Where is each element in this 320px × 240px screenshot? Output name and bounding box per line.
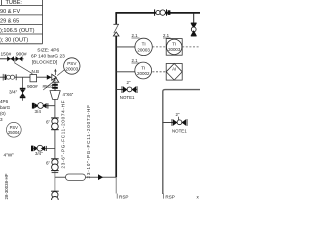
svg-text:TUBE:: TUBE: <box>6 0 23 6</box>
svg-text:#503: #503 <box>43 84 54 90</box>
svg-text:4”W”: 4”W” <box>4 153 15 159</box>
svg-text:4P6: 4P6 <box>0 99 9 104</box>
svg-text:PSV: PSV <box>67 61 77 66</box>
svg-text:23-10”-PG-FC11-20073-HF: 23-10”-PG-FC11-20073-HF <box>86 104 91 178</box>
svg-text:NOTE1: NOTE1 <box>172 129 187 134</box>
svg-text:20003: 20003 <box>168 47 181 52</box>
svg-text:(0): (0) <box>0 111 6 116</box>
svg-text:TI: TI <box>172 42 176 47</box>
svg-text:28-30038-HF: 28-30038-HF <box>4 173 9 199</box>
svg-text:900#: 900# <box>27 84 38 90</box>
svg-text:TI: TI <box>141 65 145 70</box>
svg-text:2”: 2” <box>176 112 180 117</box>
svg-text:[BLOCKED]: [BLOCKED] <box>32 59 58 65</box>
svg-text:3: 3 <box>0 117 3 122</box>
svg-text:150#: 150# <box>1 52 12 58</box>
svg-text:3/4”: 3/4” <box>9 90 18 96</box>
svg-text:barG: barG <box>0 105 11 110</box>
svg-text:SIZE: 4P6: SIZE: 4P6 <box>37 48 59 54</box>
svg-text:RSP: RSP <box>165 194 174 199</box>
svg-text:4”X6”: 4”X6” <box>63 92 74 97</box>
svg-text:); 30 (OUT): ); 30 (OUT) <box>0 38 28 44</box>
svg-text:90 & FV: 90 & FV <box>0 9 20 15</box>
svg-text:2”: 2” <box>127 80 131 85</box>
svg-text:6P 140 barG 23: 6P 140 barG 23 <box>31 53 65 59</box>
svg-text:6”: 6” <box>46 160 51 165</box>
svg-text:25004: 25004 <box>8 130 20 135</box>
svg-text:20002: 20002 <box>137 71 150 76</box>
svg-text:2.1: 2.1 <box>163 33 170 38</box>
svg-text:2.1: 2.1 <box>132 58 139 63</box>
svg-text:NOTE1: NOTE1 <box>120 95 135 100</box>
svg-text:TI: TI <box>142 42 146 47</box>
svg-text:6”: 6” <box>46 119 51 124</box>
svg-text:3/4: 3/4 <box>35 109 42 114</box>
svg-text:23-6”-PG-FC11-20074-HF: 23-6”-PG-FC11-20074-HF <box>60 100 65 169</box>
svg-text:N.B: N.B <box>32 69 40 74</box>
svg-text:RSP: RSP <box>119 194 128 199</box>
svg-text:2.1: 2.1 <box>132 33 139 38</box>
svg-text:3/4”: 3/4” <box>35 151 43 156</box>
svg-text:);106.5 (OUT): );106.5 (OUT) <box>0 28 35 34</box>
svg-text:AI: AI <box>172 66 176 71</box>
svg-text:900#: 900# <box>16 52 27 58</box>
svg-text:20003: 20003 <box>65 67 78 72</box>
svg-text:20003: 20003 <box>137 47 150 52</box>
svg-text:29 & 65: 29 & 65 <box>0 18 19 24</box>
